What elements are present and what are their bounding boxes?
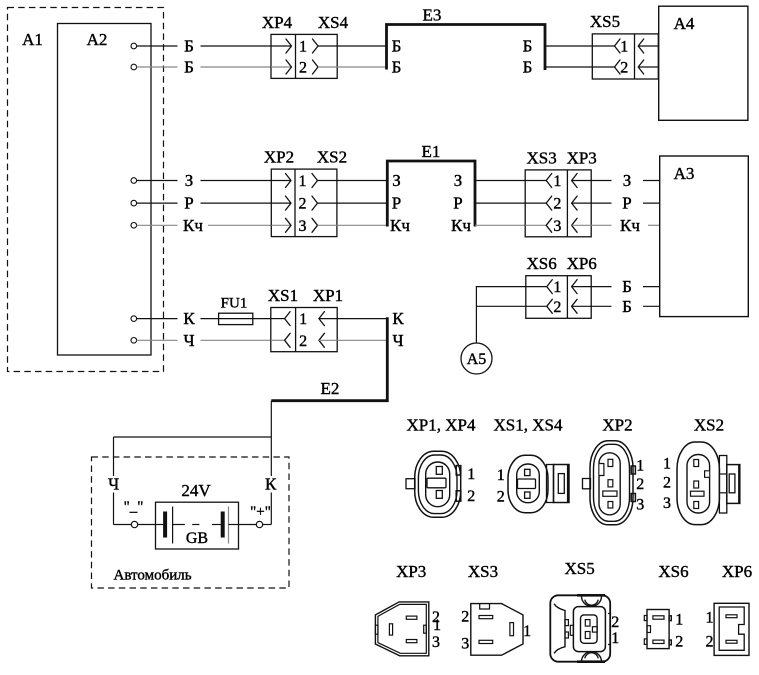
svg-text:2: 2 xyxy=(553,196,561,213)
svg-text:Ч: Ч xyxy=(183,331,194,350)
element A5 circle xyxy=(461,343,492,374)
wire xyxy=(201,45,272,47)
XS5 pin 1 wire xyxy=(592,45,614,47)
wire XS2 to E1 row 1 xyxy=(337,180,387,182)
XS4 pin 2 wire xyxy=(318,66,337,68)
wire to battery minus xyxy=(114,524,132,526)
pictogram XS6 left bump 1 xyxy=(644,616,647,621)
XP2 pin 3 contact xyxy=(286,218,292,232)
svg-text:XS3: XS3 xyxy=(526,148,556,167)
svg-text:XP4: XP4 xyxy=(262,13,293,32)
svg-text:Ч: Ч xyxy=(108,475,119,494)
svg-text:XS1: XS1 xyxy=(268,286,298,305)
pictogram XS5 left inner wall xyxy=(554,604,565,654)
svg-text:Р: Р xyxy=(392,194,401,213)
wire XS4 to E3 (row 2) xyxy=(337,66,386,68)
connector XP2/XS2 box xyxy=(271,169,337,237)
wire XP3 to A3 (З) xyxy=(591,180,611,182)
svg-text:Б: Б xyxy=(622,297,632,316)
svg-text:"_": "_" xyxy=(124,499,144,515)
svg-text:XP3: XP3 xyxy=(567,148,597,167)
svg-text:A3: A3 xyxy=(674,164,695,183)
XP2 pin 3 wire xyxy=(271,224,291,226)
XS3 pin 1 wire xyxy=(525,180,546,182)
XP3 pin 2 contact xyxy=(572,196,578,210)
fuse FU1 xyxy=(219,313,253,324)
XP4 pin 2 wire xyxy=(271,66,292,68)
wire xyxy=(137,318,178,320)
svg-text:2: 2 xyxy=(299,196,307,213)
svg-text:3: 3 xyxy=(461,635,469,652)
wire xyxy=(137,202,178,204)
wire XS6 pin1 to A5 xyxy=(476,287,525,343)
svg-text:ХР6: ХР6 xyxy=(722,562,752,581)
pictogram XP1/XP4 pin 2 hole xyxy=(436,491,442,499)
pictogram XS5 top arc xyxy=(582,596,602,606)
pictogram XP3 left notch xyxy=(375,625,378,634)
XS5 pin 1 mate contact xyxy=(638,39,644,53)
svg-text:XP1: XP1 xyxy=(313,286,343,305)
XP2 pin 1 contact xyxy=(286,174,292,188)
svg-text:XS5: XS5 xyxy=(564,559,594,578)
XS4 pin 1 contact xyxy=(313,39,319,53)
pictogram XP3 slot 2 xyxy=(406,616,417,619)
pictogram XS6 slot 2 xyxy=(653,640,664,643)
XS5 pin 1 contact xyxy=(615,39,621,53)
svg-text:К: К xyxy=(183,309,195,328)
svg-text:Автомобиль: Автомобиль xyxy=(114,568,192,584)
pictogram XS5 inner frame xyxy=(581,615,598,643)
XP4 pin 2 contact xyxy=(286,60,292,74)
svg-text:Б: Б xyxy=(622,277,632,296)
wire XS2 to E1 row 2 xyxy=(337,202,387,204)
pictogram XS5 left wall clips xyxy=(565,620,568,626)
svg-text:2: 2 xyxy=(706,634,714,651)
svg-text:XS6: XS6 xyxy=(658,562,688,581)
wire xyxy=(263,524,272,526)
svg-text:1: 1 xyxy=(706,610,714,627)
svg-text:1: 1 xyxy=(299,311,307,328)
wire Ч branch xyxy=(114,436,272,438)
XS6 pin 2 contact xyxy=(547,299,553,313)
pictogram XP2 pin 1 hole xyxy=(608,459,613,466)
XS3 pin 3 contact xyxy=(546,218,552,232)
pictogram XP2 right lug 1 xyxy=(631,466,635,474)
XS1 pin 1 wire xyxy=(271,318,285,320)
XP2 pin 2 contact xyxy=(286,196,292,210)
svg-text:XS3: XS3 xyxy=(468,562,498,581)
wire xyxy=(137,224,178,226)
svg-text:3: 3 xyxy=(636,497,644,514)
XS2 pin 2 wire xyxy=(318,202,337,204)
svg-text:3: 3 xyxy=(663,495,671,512)
XP1 pin 2 contact xyxy=(319,333,325,347)
XS2 pin 1 wire xyxy=(318,180,337,182)
svg-text:З: З xyxy=(623,171,632,190)
wire Ч down xyxy=(113,437,115,476)
pictogram XP2 key slot xyxy=(603,491,617,496)
XS3 pin 1 contact xyxy=(546,174,552,188)
battery dashes xyxy=(173,524,185,526)
pictogram XS3 body xyxy=(471,604,523,656)
svg-text:1: 1 xyxy=(553,173,561,190)
XS3 pin 2 contact xyxy=(546,196,552,210)
svg-text:24V: 24V xyxy=(181,481,211,500)
cable E2 xyxy=(271,317,387,401)
wire xyxy=(643,180,660,182)
pictogram XP2 keyway notch xyxy=(599,464,604,476)
pictogram XS2 keyway notch xyxy=(705,471,710,478)
car dashed box xyxy=(92,457,290,588)
pictogram XS1/XS4 key slot xyxy=(518,479,536,489)
svg-text:A4: A4 xyxy=(674,14,695,33)
svg-text:2: 2 xyxy=(675,634,683,651)
XS6 pin 2 wire xyxy=(526,305,547,307)
svg-text:Е1: Е1 xyxy=(422,142,441,161)
pictogram XS5 pin 2 xyxy=(585,620,590,627)
wire E3 to XS5 (row 2) xyxy=(545,66,592,68)
svg-text:2: 2 xyxy=(299,333,307,350)
svg-text:3: 3 xyxy=(299,218,307,235)
XS3 pin 3 wire xyxy=(525,224,546,226)
pictogram XS6 right bump 2 xyxy=(669,640,671,645)
A2 terminal (bot 6) xyxy=(131,316,137,322)
wire XP1 to E2 (К) xyxy=(337,318,387,320)
svg-text:2: 2 xyxy=(611,614,619,631)
pictogram XS5 pin 1 xyxy=(585,632,590,639)
svg-text:XS6: XS6 xyxy=(526,254,556,273)
svg-text:1: 1 xyxy=(523,623,531,640)
connector XS1/XP1 box xyxy=(271,308,337,352)
A2 terminal (bot 7) xyxy=(131,338,137,344)
wire XS4 to E3 (row 1) xyxy=(337,45,386,47)
wire xyxy=(208,224,271,226)
A2 terminal (mid 5) xyxy=(131,223,137,229)
svg-text:1: 1 xyxy=(433,617,441,634)
svg-text:XS4: XS4 xyxy=(318,13,349,32)
pictogram XS3 slot 1 xyxy=(510,623,514,636)
svg-text:Б: Б xyxy=(523,58,533,77)
pictogram XS2 body xyxy=(677,442,719,525)
svg-text:2: 2 xyxy=(299,60,307,77)
wire xyxy=(643,286,660,288)
XS1 pin 2 wire xyxy=(271,339,285,341)
svg-text:A1: A1 xyxy=(22,30,43,49)
battery GB box xyxy=(156,502,239,549)
pictogram XS6 right bump 1 xyxy=(669,616,671,621)
svg-text:1: 1 xyxy=(299,173,307,190)
svg-text:З: З xyxy=(185,171,194,190)
block A4 box xyxy=(659,6,748,120)
XP2 pin 1 wire xyxy=(271,180,291,182)
svg-text:Кч: Кч xyxy=(620,216,640,235)
pictogram XS6 slot 1 xyxy=(653,616,664,619)
svg-text:З: З xyxy=(392,171,401,190)
wire from battery plus xyxy=(239,524,257,526)
XP6 pin 2 contact xyxy=(572,299,578,313)
svg-text:Р: Р xyxy=(622,194,631,213)
XS3 pin 2 wire xyxy=(525,202,546,204)
XS5 pin 2 mate contact xyxy=(638,60,644,74)
XP3 pin 1 contact xyxy=(572,174,578,188)
wire XP6 to A3 (Б) xyxy=(591,286,611,288)
pictogram XS1/XS4 pin 1 xyxy=(525,469,530,475)
wire xyxy=(113,493,115,525)
pictogram XP1/XP4 left tab xyxy=(406,479,415,489)
cable E3 xyxy=(387,25,546,71)
XP6 pin 1 contact xyxy=(572,280,578,294)
wire xyxy=(201,318,220,320)
svg-text:XS5: XS5 xyxy=(590,12,620,31)
pictogram XS6 left notch xyxy=(647,626,651,633)
wire xyxy=(137,66,178,68)
svg-text:Б: Б xyxy=(184,58,194,77)
connector XS3/XP3 box xyxy=(525,170,591,237)
wire XP6 to A3 (Б) xyxy=(591,305,611,307)
XP1 pin 1 contact xyxy=(319,312,325,326)
connector XS6/XP6 box xyxy=(526,276,591,319)
wire xyxy=(270,493,272,525)
pictogram XP2 left tab xyxy=(583,479,591,489)
svg-text:1: 1 xyxy=(497,467,505,484)
svg-text:2: 2 xyxy=(461,608,469,625)
XP6 pin 2 wire xyxy=(572,305,592,307)
svg-text:XS2: XS2 xyxy=(317,148,347,167)
svg-text:A2: A2 xyxy=(87,30,108,49)
svg-text:3: 3 xyxy=(553,218,561,235)
svg-text:1: 1 xyxy=(553,279,561,296)
XS1 pin 1 contact xyxy=(285,312,291,326)
wire XS2 to E1 row 3 xyxy=(337,224,387,226)
svg-text:2: 2 xyxy=(620,60,628,77)
XP3 pin 1 wire xyxy=(572,180,592,182)
XS2 pin 3 wire xyxy=(318,224,337,226)
pictogram XP3 slot left xyxy=(389,624,392,635)
pictogram XS1/XS4 side housing xyxy=(547,465,554,503)
svg-text:Кч: Кч xyxy=(390,216,410,235)
battery cell 2 xyxy=(212,524,221,526)
wire xyxy=(643,305,660,307)
svg-text:ХР1, ХР4: ХР1, ХР4 xyxy=(407,416,476,435)
pictogram XP2 right lug 2 xyxy=(631,494,635,502)
wire xyxy=(648,224,660,226)
block A3 box xyxy=(660,156,749,317)
wire E1 to XS3 row 3 xyxy=(475,224,525,226)
XP1 pin 1 wire xyxy=(319,318,337,320)
pictogram XS5 body xyxy=(550,595,610,661)
svg-text:Кч: Кч xyxy=(183,216,203,235)
pictogram XP1/XP4 key slot xyxy=(427,478,446,488)
svg-text:Ч: Ч xyxy=(392,331,403,350)
svg-text:XP6: XP6 xyxy=(567,254,597,273)
pictogram XS2 pin 1 xyxy=(694,460,699,467)
A2 terminal (top 2) xyxy=(131,64,137,70)
XP4 pin 1 wire xyxy=(271,45,292,47)
svg-text:Б: Б xyxy=(392,37,402,56)
XS6 pin 1 wire xyxy=(526,286,547,288)
svg-text:1: 1 xyxy=(611,630,619,647)
svg-text:ХР2: ХР2 xyxy=(602,416,632,435)
XS5 pin 2 wire xyxy=(592,66,614,68)
wire E3 to XS5 (row 1) xyxy=(545,45,592,47)
XS4 pin 2 contact xyxy=(313,60,319,74)
pictogram XP2 body xyxy=(590,441,633,525)
connector XS5 box xyxy=(592,34,658,79)
svg-text:Е2: Е2 xyxy=(321,379,340,398)
svg-text:A5: A5 xyxy=(467,351,487,368)
XS6 pin 1 contact xyxy=(547,280,553,294)
svg-text:1: 1 xyxy=(675,611,683,628)
wire xyxy=(137,339,178,341)
svg-text:Р: Р xyxy=(184,194,193,213)
A2 terminal (top 1) xyxy=(131,43,137,49)
svg-text:К: К xyxy=(265,475,277,494)
XP3 pin 3 contact xyxy=(572,218,578,232)
svg-text:Е3: Е3 xyxy=(423,6,442,25)
pictogram XP6 body xyxy=(714,603,749,655)
pictogram XS2 pin 3 xyxy=(694,502,699,509)
svg-text:"+": "+" xyxy=(250,504,271,520)
XS2 pin 2 contact xyxy=(312,196,318,210)
A2 terminal (mid 3) xyxy=(131,178,137,184)
pictogram XS3 slot 2 xyxy=(479,616,493,619)
svg-text:1: 1 xyxy=(636,458,644,475)
XS2 pin 1 contact xyxy=(312,174,318,188)
pictogram XS1/XS4 body xyxy=(508,455,548,512)
svg-text:Б: Б xyxy=(392,58,402,77)
svg-text:1: 1 xyxy=(467,466,475,483)
XP6 pin 1 wire xyxy=(572,286,592,288)
A2 terminal (mid 4) xyxy=(131,200,137,206)
svg-text:2: 2 xyxy=(636,476,644,493)
svg-text:XP2: XP2 xyxy=(264,148,294,167)
block A2 box xyxy=(58,24,152,356)
svg-text:1: 1 xyxy=(620,39,628,56)
pictogram XP1/XP4 right lug 1 xyxy=(456,466,461,475)
XP2 pin 2 wire xyxy=(271,202,291,204)
svg-text:2: 2 xyxy=(497,489,505,506)
wire XP3 to A3 (Кч) xyxy=(591,224,611,226)
XS5 pin 1 wire to A4 xyxy=(638,45,659,47)
wire xyxy=(137,180,178,182)
pictogram XS6 left bump 2 xyxy=(644,639,647,645)
fuse FU1 wire xyxy=(219,318,271,320)
pictogram XS1/XS4 pin 2 xyxy=(525,492,530,498)
pictogram XS5 right ticks xyxy=(608,613,610,615)
wire XS6 pin2 to A5 xyxy=(476,305,525,307)
pictogram XP2 pin 3 hole xyxy=(608,502,613,509)
svg-text:З: З xyxy=(454,171,463,190)
svg-text:3: 3 xyxy=(432,634,440,651)
svg-text:К: К xyxy=(392,309,404,328)
wire К down to battery + xyxy=(270,401,272,476)
XP4 pin 1 contact xyxy=(286,39,292,53)
wire E1 to XS3 row 2 xyxy=(475,202,525,204)
wire xyxy=(201,202,272,204)
svg-text:2: 2 xyxy=(467,488,475,505)
pictogram XP3 right notch xyxy=(424,625,427,633)
wire xyxy=(201,339,271,341)
XP3 pin 3 wire xyxy=(572,224,592,226)
wire xyxy=(138,524,156,526)
svg-text:ХР3: ХР3 xyxy=(396,562,426,581)
pictogram XS2 side housing xyxy=(719,456,726,514)
svg-text:Б: Б xyxy=(184,37,194,56)
pictogram XP2 pin 2 hole xyxy=(608,480,613,487)
pictogram XS5 bottom arc xyxy=(582,652,602,662)
wire xyxy=(643,202,660,204)
pictogram XP6 slot 1 xyxy=(726,615,737,618)
pictogram XS5 key xyxy=(592,627,597,632)
svg-text:Р: Р xyxy=(453,194,462,213)
pictogram XP1/XP4 right lug 2 xyxy=(456,491,461,501)
svg-text:2: 2 xyxy=(663,475,671,492)
svg-text:GB: GB xyxy=(186,530,208,547)
pictogram XP1/XP4 pin 1 hole xyxy=(436,467,442,475)
pictogram XS2 pin 2 xyxy=(694,481,699,488)
svg-text:2: 2 xyxy=(553,299,561,316)
XP3 pin 2 wire xyxy=(572,202,592,204)
wire xyxy=(137,45,178,47)
pictogram XP6 slot 2 xyxy=(726,640,737,643)
connector XP4/XS4 box xyxy=(271,34,337,78)
pictogram XS6 body xyxy=(647,610,669,649)
svg-text:FU1: FU1 xyxy=(221,296,248,312)
XS1 pin 2 contact xyxy=(285,333,291,347)
svg-text:XS1, XS4: XS1, XS4 xyxy=(494,416,563,435)
pictogram XS5 housing xyxy=(573,607,605,652)
svg-text:1: 1 xyxy=(663,456,671,473)
wire xyxy=(201,180,272,182)
wire XP1 to E2 (Ч) xyxy=(337,339,387,341)
XS4 pin 1 wire xyxy=(318,45,337,47)
XS5 pin 2 contact xyxy=(615,60,621,74)
pictogram XP3 body xyxy=(375,602,428,656)
wire xyxy=(201,66,272,68)
cable E1 xyxy=(387,161,475,227)
wire E1 to XS3 row 1 xyxy=(475,180,525,182)
pictogram XP3 slot 3 xyxy=(406,640,417,643)
pictogram XS3 slot 3 xyxy=(479,640,493,643)
block A1 dashed box xyxy=(8,8,164,372)
battery minus terminal xyxy=(131,521,137,527)
battery plus terminal xyxy=(256,521,262,527)
svg-text:Б: Б xyxy=(523,37,533,56)
pictogram XS3 top notch xyxy=(480,604,490,609)
battery cell 1 xyxy=(156,524,164,526)
XS5 pin 2 wire to A4 xyxy=(638,66,659,68)
svg-text:XS2: XS2 xyxy=(694,416,724,435)
svg-text:1: 1 xyxy=(299,39,307,56)
svg-text:Кч: Кч xyxy=(451,216,471,235)
pictogram XS2 key slot xyxy=(691,491,705,496)
pictogram XP1/XP4 body xyxy=(415,451,461,517)
XP1 pin 2 wire xyxy=(319,339,337,341)
wire XP3 to A3 (Р) xyxy=(591,202,611,204)
pictogram XS5 left tab xyxy=(570,625,573,635)
XS2 pin 3 contact xyxy=(312,218,318,232)
